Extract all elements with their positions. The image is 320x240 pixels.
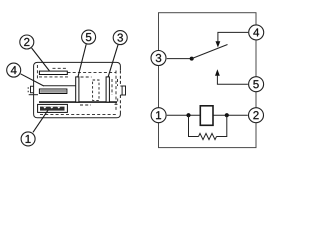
resistor branch wires [189, 115, 227, 136]
mounting tab left [31, 86, 34, 93]
mounting tab right [120, 86, 125, 95]
callout circle 4 [7, 63, 21, 77]
wire from terminal 4 [218, 32, 248, 41]
tab left lower line [29, 94, 38, 96]
terminal blade 1 (bottom horizontal, hatched) [38, 104, 68, 112]
callout circle 2 [20, 35, 34, 49]
resistor R (zigzag) [199, 133, 217, 139]
switch arm (movable contact) [192, 45, 228, 59]
leader line to callout 1 [33, 110, 48, 132]
leader line to callout 3 [108, 45, 118, 77]
internal base plate line (thick) [39, 101, 117, 103]
coil supply wire 1-2 [167, 114, 248, 116]
tab left outer dashes [27, 87, 29, 92]
terminal circle 1 [151, 108, 166, 123]
internal coil hidden box (dashed) [93, 80, 99, 100]
contact arrow 5 (points up) [215, 69, 220, 76]
tab inner edge [121, 86, 123, 95]
terminal blade 3 (right vertical) [106, 77, 109, 102]
terminal circle 2 [249, 108, 264, 123]
relay coil [200, 106, 213, 126]
schematic frame [159, 13, 257, 148]
terminal blade 4 (middle left horizontal) [39, 89, 67, 94]
leader line to callout 5 [78, 44, 86, 76]
callout circle 1 [21, 132, 35, 146]
terminal circle 4 [249, 25, 264, 40]
inner case hidden outline (dashed) [37, 65, 118, 115]
terminal circle 3 [151, 51, 166, 66]
wire from terminal 5 [217, 76, 248, 85]
internal armature line (thin) [44, 85, 76, 87]
contact arrow 4 (points down) [216, 41, 221, 47]
callout circle 3 [113, 31, 127, 45]
leader line to callout 4 [21, 74, 44, 86]
junction node left [186, 113, 190, 117]
terminal blade 5 (left vertical) [76, 77, 79, 102]
relay body outline (top view, case) [34, 62, 121, 117]
pivot junction dot [190, 57, 194, 61]
wire from terminal 3 to pivot [167, 58, 192, 60]
leader line to callout 2 [32, 48, 50, 71]
callout circle 5 [82, 30, 96, 44]
terminal blade 2 (top left horizontal) [39, 71, 67, 74]
junction node right [225, 113, 229, 117]
terminal circle 5 [249, 77, 264, 92]
